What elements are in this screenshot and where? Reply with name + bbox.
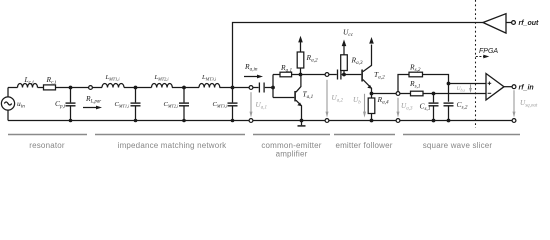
arrow U_b,s	[470, 84, 472, 88]
svg-text:amplifier: amplifier	[276, 150, 308, 159]
inductor L_MT2,i	[152, 84, 173, 88]
svg-text:Cp,i: Cp,i	[55, 99, 66, 110]
node: junction comparator plus line	[447, 82, 451, 86]
gray measurement arrows	[250, 80, 516, 118]
FPGA dashed arrow	[476, 56, 484, 58]
svg-text:emitter follower: emitter follower	[335, 141, 392, 150]
node: collector junction	[299, 73, 303, 77]
svg-text:Ub: Ub	[353, 96, 361, 106]
transistor T_a,2	[361, 70, 363, 82]
svg-text:Ucc: Ucc	[343, 28, 354, 39]
svg-text:CMT2,i: CMT2,i	[164, 101, 180, 110]
svg-text:LMT3,i: LMT3,i	[201, 74, 217, 83]
node: ground rail end circle	[512, 119, 516, 123]
resistor R_s,1	[411, 91, 424, 96]
arrow R_L,par	[83, 107, 97, 109]
arrow U_a,3	[397, 98, 399, 113]
capacitor: input coupling cap	[258, 83, 260, 93]
arrow U_b	[364, 94, 366, 113]
resistor R_s,2	[409, 72, 423, 77]
arrow U_a,1	[250, 92, 252, 113]
svg-text:Ua,2: Ua,2	[332, 94, 344, 104]
node: port circle amp output bottom	[325, 119, 329, 123]
svg-text:Ta,1: Ta,1	[303, 90, 314, 101]
node: junction rf drive / C_MT3,i	[231, 86, 235, 90]
node: junction base/feedback	[271, 86, 275, 90]
svg-text:LMT2,i: LMT2,i	[154, 74, 170, 83]
source u_in	[7, 88, 9, 97]
node: port circle amp input bottom	[249, 119, 253, 123]
svg-text:uin: uin	[17, 99, 25, 110]
node: junction at C_MT2,i	[182, 86, 186, 90]
svg-text:Ra,2: Ra,2	[306, 53, 318, 64]
node: port circle amp input top	[249, 86, 253, 90]
arrow U_sq,out	[513, 90, 515, 113]
wire: top rf_out rail with corner down to matching network node	[233, 23, 484, 88]
svg-text:RL,par: RL,par	[85, 94, 101, 105]
wire: emitter output line	[372, 93, 411, 95]
node: junction follower emitter	[370, 92, 374, 96]
node: rf_in port circle	[512, 85, 516, 89]
resistor R_c,i	[44, 85, 56, 90]
node: port circle follower output bottom	[396, 119, 400, 123]
buffer amplifier rf_out (in FPGA)	[483, 14, 506, 33]
FPGA and port labels	[479, 20, 539, 92]
wire: plus input line	[449, 83, 487, 85]
inductor L_c,i	[18, 84, 38, 88]
wire: bottom ground rail	[8, 120, 512, 122]
inductor L_MT1,i	[102, 84, 124, 88]
svg-text:CMT1,i: CMT1,i	[115, 101, 131, 110]
svg-text:Ua,1: Ua,1	[256, 101, 267, 111]
capacitor: interstage coupling cap	[329, 74, 337, 76]
svg-text:Ra,3: Ra,3	[351, 56, 363, 67]
svg-text:resonator: resonator	[29, 141, 65, 150]
comparator U1 (square wave slicer, in FPGA)	[486, 74, 504, 101]
capacitor C_s,2	[444, 102, 454, 104]
wire: main top rail segments	[8, 87, 18, 89]
inductor L_MT3,i	[199, 84, 220, 88]
svg-text:rf_in: rf_in	[519, 85, 534, 92]
svg-text:Ra,4: Ra,4	[377, 95, 389, 106]
capacitor C_MT3,i	[232, 88, 234, 103]
wire: vertical base/feedback	[272, 75, 274, 98]
svg-text:Ub,s: Ub,s	[457, 86, 466, 93]
node: rail junction C_MT2,i	[182, 119, 186, 123]
gray measurement labels	[256, 86, 538, 112]
node: junction at C_p,i	[69, 86, 73, 90]
capacitor C_MT1,i	[135, 88, 137, 103]
svg-text:Rs,1: Rs,1	[409, 79, 421, 90]
svg-text:LMT1,i: LMT1,i	[105, 74, 121, 83]
transistor T_a,1	[294, 91, 296, 101]
node: junction follower base	[342, 73, 346, 77]
node: port circle amp output top	[325, 73, 329, 77]
node: port circle follower output top	[396, 92, 400, 96]
capacitor C_s,1	[433, 94, 435, 103]
node: rail junction C_MT1,i	[134, 119, 138, 123]
section divider lines	[8, 134, 520, 136]
node: open port circle on rail	[89, 86, 93, 90]
wire: base lead T_a,1	[273, 97, 294, 99]
resistor R_a,4	[368, 98, 375, 114]
node: rf_out port circle	[512, 21, 516, 25]
capacitor C_MT2,i	[183, 88, 185, 103]
svg-text:Ua,3: Ua,3	[401, 102, 413, 112]
svg-text:Ra,in: Ra,in	[244, 62, 258, 73]
node: junction R_a,4 ground	[370, 119, 374, 123]
svg-text:impedance matching network: impedance matching network	[118, 141, 228, 150]
node: junction at C_MT1,i	[134, 86, 138, 90]
FPGA boundary dashed line	[475, 0, 477, 128]
capacitor C_p,i	[70, 88, 72, 103]
resistor R_a,1 feedback	[273, 74, 280, 76]
arrow R_a,in	[244, 76, 258, 78]
svg-text:Cs,2: Cs,2	[457, 100, 468, 111]
wire: branch up to R_s,2	[398, 75, 409, 92]
node: junction C_s,1	[432, 92, 436, 96]
node: rail junction C_p,i	[69, 119, 73, 123]
svg-text:rf_out: rf_out	[519, 20, 540, 27]
svg-text:Ta,2: Ta,2	[374, 70, 385, 81]
section labels	[29, 141, 492, 159]
svg-text:FPGA: FPGA	[479, 48, 498, 55]
arrow U_a,2	[326, 80, 328, 113]
svg-text:square wave slicer: square wave slicer	[423, 141, 493, 150]
svg-text:Rs,2: Rs,2	[409, 63, 421, 74]
ground symbol	[300, 119, 304, 123]
svg-text:CMT3,i: CMT3,i	[213, 101, 229, 110]
svg-text:Rc,i: Rc,i	[46, 75, 57, 86]
resistor R_a,3 with supply arrow	[341, 55, 348, 71]
svg-text:Usq,out: Usq,out	[520, 99, 538, 109]
node: rail junction C_MT3,i	[231, 119, 235, 123]
resistor R_a,2 with supply arrow	[297, 52, 304, 68]
